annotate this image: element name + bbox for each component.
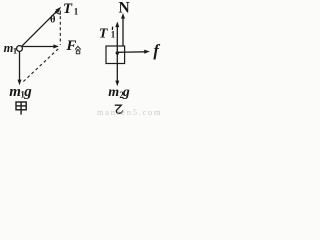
- svg-text:θ: θ: [50, 15, 56, 26]
- svg-text:g: g: [23, 84, 32, 100]
- svg-text:N: N: [119, 0, 130, 16]
- svg-text:F: F: [65, 38, 76, 54]
- svg-text:m: m: [9, 84, 21, 100]
- svg-text:1: 1: [111, 29, 116, 39]
- svg-text:1: 1: [13, 46, 17, 56]
- svg-text:g: g: [122, 85, 130, 100]
- svg-text:m: m: [108, 85, 119, 100]
- svg-text:T: T: [99, 26, 109, 41]
- svg-text:T: T: [63, 1, 73, 17]
- svg-text:1: 1: [74, 7, 79, 17]
- svg-text:manfen5.com: manfen5.com: [97, 107, 162, 116]
